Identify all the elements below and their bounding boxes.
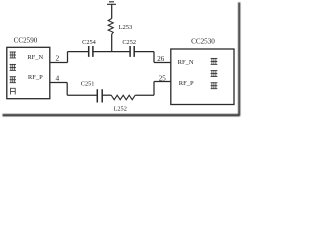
svg-text:C254: C254 [82,39,96,46]
svg-text:C252: C252 [122,39,136,46]
wire corner up to pin 25 level [153,82,155,96]
wire corner down to pin 26 level [153,52,155,63]
pin 26 stub (RF_N of CC2530) [154,62,171,64]
char 控 [211,70,218,77]
wire top rail left segment [68,51,89,53]
capacitor C252 [130,46,134,57]
inductor L252 zigzag body [111,95,135,100]
wire C251 to L252 [103,94,111,96]
wire corner pin4 down to bottom rail [66,83,68,96]
svg-text:RF_N: RF_N [178,59,194,66]
svg-text:CC2530: CC2530 [191,38,215,46]
pin 4 stub (RF_P of CC2590) [50,82,67,84]
wire ground to L253 [111,4,113,18]
svg-text:4: 4 [55,73,59,82]
svg-text:26: 26 [157,55,165,63]
wire corner pin2 up to top rail [67,52,69,63]
wire bottom rail left segment [67,94,97,96]
ground [107,2,116,5]
capacitor C254 [89,46,93,57]
IC U1 CC2590 box [7,47,50,98]
vertical Chinese label 射频芯片 inside U1 (drawn as pseudo-glyph strokes) [10,52,16,95]
frame shadow bottom [3,114,240,117]
pin 25 stub (RF_P of CC2530) [154,81,171,83]
svg-text:RF_N: RF_N [27,54,43,61]
svg-text:C251: C251 [81,81,95,88]
svg-text:CC2590: CC2590 [14,37,38,45]
IC U2 CC2530 box [171,49,234,105]
pin 2 stub (RF_N of CC2590) [50,62,68,64]
svg-text:RF_P: RF_P [28,74,43,81]
svg-text:L253: L253 [118,24,133,31]
wire L252 to right corner [135,94,154,96]
inductor L253 zigzag body [108,19,113,35]
svg-text:L252: L252 [114,105,127,112]
wire C254 to junction to C252 [94,51,130,53]
wire L253 to top rail junction [111,34,113,52]
char 遥 [211,58,218,65]
wire top rail right segment [135,51,154,53]
vertical Chinese label 遥控器 inside U2 (drawn as pseudo-glyph strokes) [211,58,218,89]
svg-text:2: 2 [55,54,59,63]
char 射 [10,52,16,59]
char 频 [10,64,16,71]
char 片 [10,88,15,95]
frame shadow right [238,2,240,115]
char 芯 [10,76,16,83]
svg-text:25: 25 [159,74,167,82]
svg-text:RF_P: RF_P [179,80,194,87]
char 器 [211,82,218,89]
capacitor C251 [97,89,102,102]
